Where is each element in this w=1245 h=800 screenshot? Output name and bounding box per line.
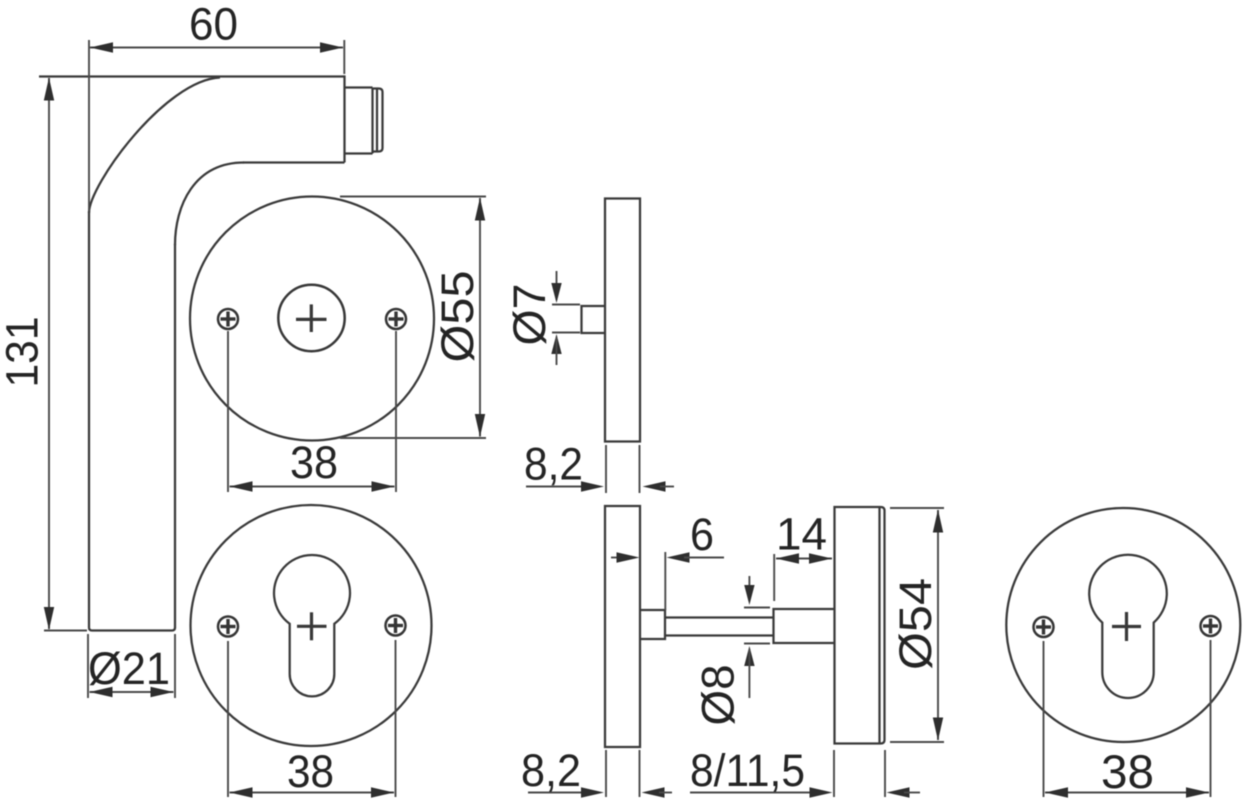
dimension 6 extension line [664, 552, 666, 610]
lower right 38 left arrowhead [1045, 787, 1068, 797]
dimension 6 right tail line [684, 557, 724, 559]
lower left 38 right arrowhead [371, 787, 394, 797]
upper 38 line [230, 486, 395, 488]
lever handle outline - top edge and extension line [39, 75, 345, 77]
dimension 131 bottom extension line [44, 630, 87, 632]
dimension 60 left arrowhead [90, 42, 113, 52]
dimension 7 lower arrowhead [551, 334, 561, 354]
cylinder rose profile rectangle [835, 507, 885, 744]
dimension 8 lower arrowhead [744, 646, 754, 666]
dimension 55 top arrowhead [475, 198, 485, 221]
lower right rose cylinder keyhole [1089, 555, 1167, 698]
rose thickness right arrowhead [887, 787, 910, 797]
lower left rose cylinder keyhole [274, 555, 350, 696]
lever handle grip right edge [174, 244, 176, 628]
dimension 54 top arrowhead [933, 510, 943, 533]
dimension 8/11,5 leader line [690, 792, 810, 794]
svg-text:8,2: 8,2 [521, 745, 581, 796]
lower left rose right screw [386, 616, 406, 636]
upper 8,2 leader line [526, 486, 585, 488]
svg-text:6: 6 [690, 509, 714, 560]
lower right rose centre cross [1112, 625, 1141, 628]
lever handle grip left edge [88, 211, 90, 628]
lever handle arm bottom edge [243, 161, 345, 163]
svg-text:38: 38 [290, 437, 338, 488]
lower left 38 line [230, 792, 395, 794]
svg-text:131: 131 [0, 317, 48, 388]
dimension 21 right arrowhead [151, 687, 174, 697]
lower right rose right screw [1201, 616, 1221, 636]
cylinder rose profile inner edge [878, 507, 880, 744]
lever handle inner curve [175, 163, 244, 246]
rose thickness left extension line [833, 750, 835, 797]
dimension 131 line [48, 78, 50, 629]
dimension 8 upper arrowhead [744, 585, 754, 605]
dimension 8/11,5 right arrowhead [810, 787, 833, 797]
rose thickness right extension line [884, 750, 886, 797]
upper rose spindle hole [278, 285, 344, 351]
lever handle outer curve [89, 78, 220, 214]
dimension 6 left arrow line [611, 557, 627, 559]
dimension 8/11,5 left tail line [659, 792, 672, 794]
lower left rose circle [191, 505, 432, 746]
svg-text:38: 38 [1101, 745, 1154, 798]
upper 8,2 left extension line [605, 445, 607, 493]
dimension 131 bottom arrowhead [44, 607, 54, 630]
svg-text:38: 38 [287, 746, 334, 797]
dimension 7 top extension line [552, 304, 580, 306]
svg-text:Ø54: Ø54 [890, 578, 941, 670]
dimension 54 bottom arrowhead [933, 718, 943, 741]
handle spindle cap [373, 89, 383, 152]
lower left 38 right extension line [395, 640, 397, 797]
dimension 8 bottom extension line [744, 643, 770, 645]
dimension 7 upper arrowhead [551, 283, 561, 303]
upper 8,2 right tail line [660, 486, 674, 488]
dimension 7 upper arrow line [556, 271, 558, 300]
spindle rod bottom edge [665, 634, 774, 636]
handle neck end line [371, 88, 373, 154]
dimension 21 right extension line [174, 634, 176, 698]
dimension 21 left extension line [87, 634, 89, 698]
lower right 38 right extension line [1210, 640, 1212, 797]
lower rose profile rectangle [605, 506, 640, 747]
svg-text:Ø55: Ø55 [432, 271, 483, 363]
upper rose circle [190, 197, 434, 441]
dimension 55 line [479, 198, 481, 437]
lever handle grip bottom edge [89, 628, 175, 631]
dimension 6 right arrowhead [667, 552, 690, 562]
dimension 55 bottom arrowhead [475, 414, 485, 437]
dimension 14 right arrowhead [809, 553, 832, 563]
dimension 14 line [776, 558, 832, 560]
lower left 38 left arrowhead [230, 787, 253, 797]
dimension 60 left extension line [88, 40, 90, 211]
dimension 60 right arrowhead [320, 42, 343, 52]
dimension 7 bottom extension line [552, 332, 580, 334]
svg-text:Ø7: Ø7 [504, 284, 555, 346]
upper 38 right arrowhead [372, 481, 395, 491]
lower left rose centre cross [297, 625, 327, 628]
lower 8,2 arrowhead [581, 787, 604, 797]
dimension 8/11,5 left arrowhead [642, 787, 665, 797]
dimension 14 extension line [773, 554, 775, 601]
lower right 38 left extension line [1043, 641, 1045, 797]
svg-text:Ø21: Ø21 [88, 643, 170, 694]
spindle square boss [640, 610, 665, 639]
dimension 8 lower arrow line [748, 649, 750, 698]
dimension 54 bottom extension line [890, 741, 944, 743]
svg-text:8/11,5: 8/11,5 [690, 745, 805, 796]
spindle block [774, 609, 835, 643]
dimension 131 top arrowhead [44, 78, 54, 101]
handle neck bottom edge [345, 152, 373, 154]
dimension 55 top extension line [340, 196, 486, 198]
upper rose centre cross [296, 318, 327, 321]
spindle rod top edge [665, 616, 774, 618]
upper spindle pin [582, 306, 606, 333]
lower left 38 left extension line [227, 641, 229, 797]
dimension 8 upper arrow line [748, 576, 750, 601]
dimension 54 top extension line [890, 507, 944, 509]
dimension 21 line [90, 691, 174, 693]
svg-text:60: 60 [189, 0, 238, 50]
handle neck top edge [345, 86, 373, 88]
upper 8,2 left arrowhead [581, 481, 604, 491]
upper 38 left arrowhead [230, 481, 253, 491]
svg-text:14: 14 [776, 509, 827, 560]
upper rose profile rectangle [605, 199, 640, 442]
upper 38 left extension line [227, 331, 229, 492]
dimension 7 lower arrow line [556, 337, 558, 365]
dimension 60 right extension line [343, 40, 345, 74]
lower 8,2 leader line [528, 792, 585, 794]
rose thickness right tail line [904, 792, 920, 794]
lower right 38 right arrowhead [1186, 787, 1209, 797]
upper 38 right extension line [395, 331, 397, 492]
dimension 14 left arrowhead [776, 553, 799, 563]
svg-text:8,2: 8,2 [524, 439, 583, 490]
dimension 6 left arrowhead [617, 552, 640, 562]
upper 8,2 right extension line [639, 445, 641, 493]
lower 8,2 right extension line [639, 750, 641, 797]
upper 8,2 right arrowhead [643, 481, 666, 491]
lower left rose left screw [218, 617, 238, 637]
lower right rose circle [1006, 508, 1240, 742]
lower 8,2 left extension line [605, 750, 607, 797]
dimension 8 top extension line [744, 607, 770, 609]
dimension 55 bottom extension line [340, 437, 486, 439]
dimension 21 left arrowhead [90, 687, 113, 697]
upper rose right screw [386, 309, 406, 329]
svg-text:Ø8: Ø8 [693, 665, 744, 726]
lower right 38 line [1045, 792, 1209, 794]
upper rose left screw [218, 309, 238, 329]
dimension 54 line [937, 510, 939, 740]
lower right rose left screw [1034, 617, 1054, 637]
lever handle right edge [343, 75, 345, 162]
dimension 60 line [90, 47, 343, 49]
